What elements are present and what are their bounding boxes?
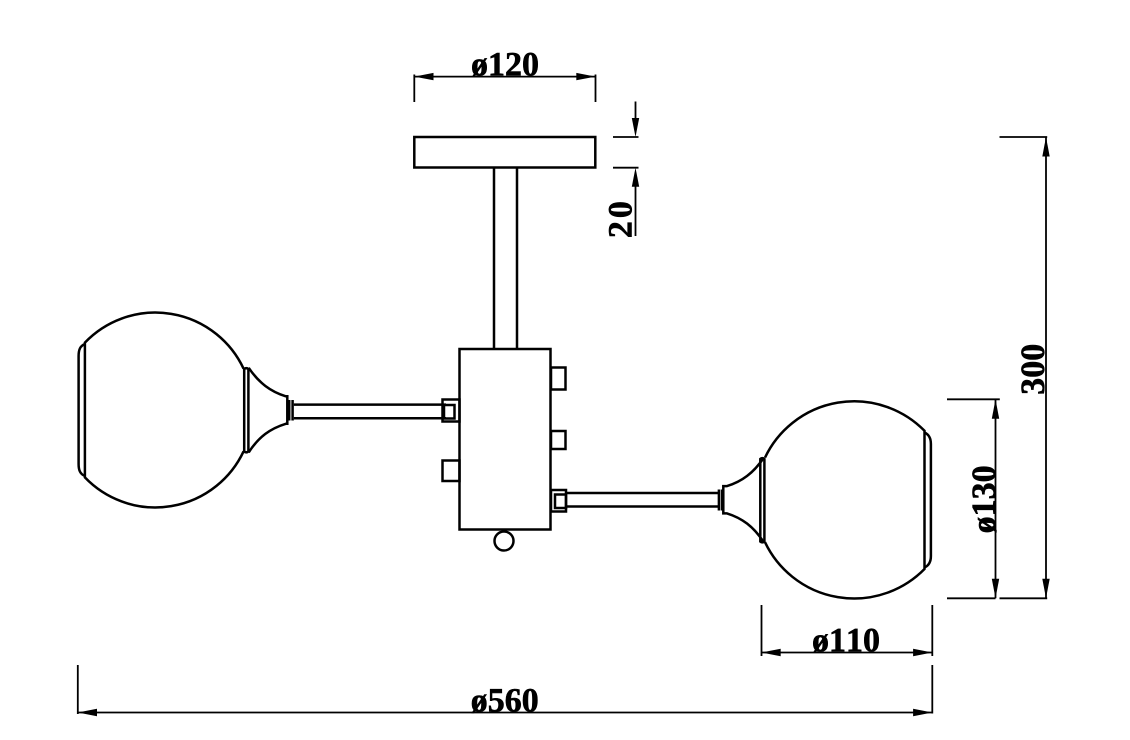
right globe shade [765,401,925,598]
right globe rim band [925,433,931,568]
left holder neck [288,400,291,421]
left globe shade [85,313,244,508]
dim ø110 extension right [931,605,933,656]
dim 300 tick bottom [1000,597,1048,599]
right arm tube [566,492,718,495]
dim ø120 extension left [413,75,415,103]
right holder neck [718,490,721,511]
dim ø130 line [995,399,997,598]
finial ball [495,532,514,551]
dim 20 lower arrow [635,182,637,236]
dim ø110 text [813,629,879,653]
left arm tube [294,403,446,406]
dim 20 text [609,202,632,236]
left globe rim band [79,344,85,476]
dim ø560 text [472,689,538,713]
dim ø130 tick bottom [947,597,996,599]
dim 20 tick bottom [613,167,639,169]
dim ø120 line [414,76,595,78]
left shade collar [244,368,248,452]
dim 20 upper arrow [635,102,637,125]
dim ø130 tick top [947,398,1000,400]
right tab 1 [551,368,566,390]
left lamp holder bell [249,368,288,453]
dim 20 tick top [613,136,639,138]
dim ø110 line [762,652,933,654]
left tab 2 [443,461,460,482]
dim ø560 extension left [77,665,79,714]
dim ø110 extension left [761,605,763,656]
dim ø560 line [78,712,933,714]
right shade collar [760,458,764,542]
central body [460,349,551,530]
dim ø130 text [972,467,996,533]
dim ø560 extension right [931,665,933,714]
dim 300 tick top [1000,136,1048,138]
dim ø120 extension right [595,75,597,103]
right tab 2 [551,431,566,449]
canopy plate [414,137,595,168]
stem [493,168,496,350]
right lamp holder bell [723,458,764,543]
left tab 1 (arm socket) [443,400,460,422]
right tab 3 (arm socket) [551,490,566,512]
dim 300 line [1045,137,1047,598]
dim 300 text [1021,345,1044,393]
dim ø120 text [472,53,538,77]
